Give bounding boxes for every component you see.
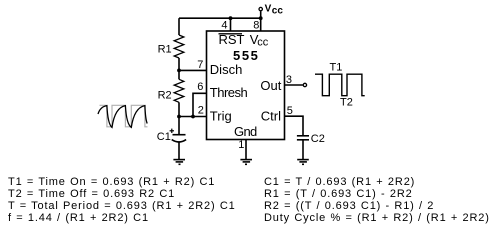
svg-text:f = 1.44 / (R1 + 2R2) C1: f = 1.44 / (R1 + 2R2) C1 [8, 212, 149, 224]
op 555 box U1 [207, 31, 285, 140]
svg-text:Ctrl: Ctrl [261, 108, 281, 123]
svg-text:T2: T2 [340, 97, 353, 109]
node trig junction [191, 115, 195, 119]
node pin7 junction [177, 69, 181, 73]
node Vcc terminal [259, 7, 262, 10]
capacitor C2 [297, 135, 309, 137]
ground pin 1 [240, 159, 252, 161]
pin 6 wire [193, 93, 207, 116]
labels [157, 20, 353, 151]
svg-text:Gnd: Gnd [234, 124, 257, 139]
node pin2 junction [177, 115, 181, 119]
svg-text:T1: T1 [330, 62, 343, 74]
svg-text:cc: cc [257, 37, 269, 49]
junction dots [177, 16, 263, 118]
output waveform [315, 74, 365, 96]
input waveform cap voltage [98, 106, 147, 128]
svg-text:Duty Cycle % = (R1 + R2) / (R1: Duty Cycle % = (R1 + R2) / (R1 + 2R2) [264, 212, 490, 224]
wire R1 bottom [178, 58, 180, 70]
pin 4 wire [230, 18, 232, 31]
svg-text:C1 = T / 0.693 (R1 + 2R2): C1 = T / 0.693 (R1 + 2R2) [264, 176, 415, 188]
pin 8 wire [260, 18, 262, 31]
Vcc supply label [265, 4, 284, 17]
plus sign C1 [170, 129, 174, 133]
svg-text:Disch: Disch [210, 62, 243, 77]
ground C1 [173, 159, 185, 161]
svg-text:Trig: Trig [210, 108, 232, 123]
pin 7 wire [179, 69, 207, 71]
svg-text:RST: RST [219, 32, 245, 47]
formulas right column [264, 176, 490, 224]
pin 5 wire [285, 116, 304, 136]
svg-text:4: 4 [221, 20, 227, 32]
svg-text:8: 8 [253, 20, 259, 32]
node pin8 junction [259, 16, 263, 20]
svg-text:Thresh: Thresh [210, 85, 248, 100]
svg-text:3: 3 [286, 74, 292, 86]
node pin4 junction [229, 16, 233, 20]
svg-text:R1 = (T / 0.693 C1) - 2R2: R1 = (T / 0.693 C1) - 2R2 [264, 188, 413, 200]
pin 2 wire [179, 116, 207, 118]
svg-text:555: 555 [233, 48, 260, 63]
svg-text:V: V [265, 4, 272, 15]
svg-text:cc: cc [272, 5, 284, 16]
svg-text:5: 5 [287, 105, 293, 117]
svg-text:6: 6 [197, 81, 203, 93]
svg-text:R2: R2 [158, 89, 172, 101]
svg-text:2: 2 [198, 105, 204, 117]
svg-text:R1: R1 [158, 44, 172, 56]
input waveform gray square [100, 105, 148, 127]
wire R1 top [178, 18, 180, 35]
ground C2 [297, 159, 309, 161]
svg-text:Out: Out [260, 78, 281, 93]
svg-text:7: 7 [197, 59, 203, 71]
svg-text:C2: C2 [311, 133, 325, 145]
resistor R1 [174, 35, 184, 58]
wire Vcc stub [260, 11, 262, 18]
svg-text:R2 = ((T / 0.693 C1) - R1) / 2: R2 = ((T / 0.693 C1) - R1) / 2 [264, 200, 434, 212]
svg-text:1: 1 [238, 139, 244, 151]
svg-text:T = Total Period = 0.693 (R1: T = Total Period = 0.693 (R1 + 2R2) C1 [8, 200, 236, 212]
pin 1 wire [245, 140, 247, 160]
node output terminal [303, 83, 306, 86]
svg-text:T1 = Time On = 0.693 (R1 + R2): T1 = Time On = 0.693 (R1 + R2) C1 [8, 176, 215, 188]
pin 3 wire [285, 84, 303, 86]
RST overline [219, 33, 243, 35]
formulas left column [8, 176, 236, 224]
svg-text:C1: C1 [157, 131, 171, 143]
svg-text:T2 = Time Off = 0.693 R2 C1: T2 = Time Off = 0.693 R2 C1 [8, 188, 175, 200]
capacitor C1 [178, 117, 180, 135]
resistor R2 [178, 70, 180, 79]
wire top rail [179, 17, 261, 19]
